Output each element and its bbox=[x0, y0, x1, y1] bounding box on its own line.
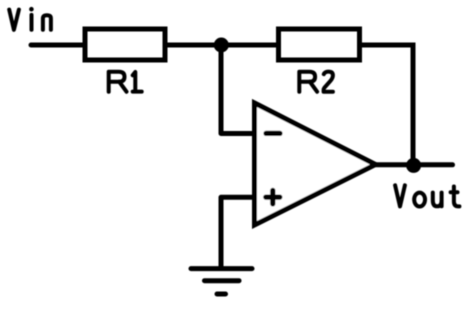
node Vin label bbox=[9, 10, 51, 30]
resistor R1 bbox=[85, 29, 165, 60]
junction node A bbox=[214, 38, 229, 53]
wire inverting input bbox=[221, 45, 252, 134]
wire non-inverting input bbox=[221, 197, 252, 268]
wire R1 to R2 bbox=[165, 43, 278, 48]
op-amp minus pin symbol bbox=[266, 131, 280, 136]
label R1 bbox=[109, 72, 142, 92]
wire output bbox=[376, 162, 453, 167]
op-amp plus pin symbol bbox=[266, 195, 280, 200]
ground bbox=[191, 269, 252, 294]
resistor R2 bbox=[279, 29, 360, 60]
op-amp U1 triangle bbox=[255, 103, 376, 225]
wire R2 to output corner bbox=[360, 45, 414, 166]
label R2 bbox=[299, 72, 333, 92]
label Vout bbox=[395, 185, 459, 206]
junction node Vout bbox=[406, 158, 421, 173]
wire Vin input bbox=[31, 43, 85, 48]
